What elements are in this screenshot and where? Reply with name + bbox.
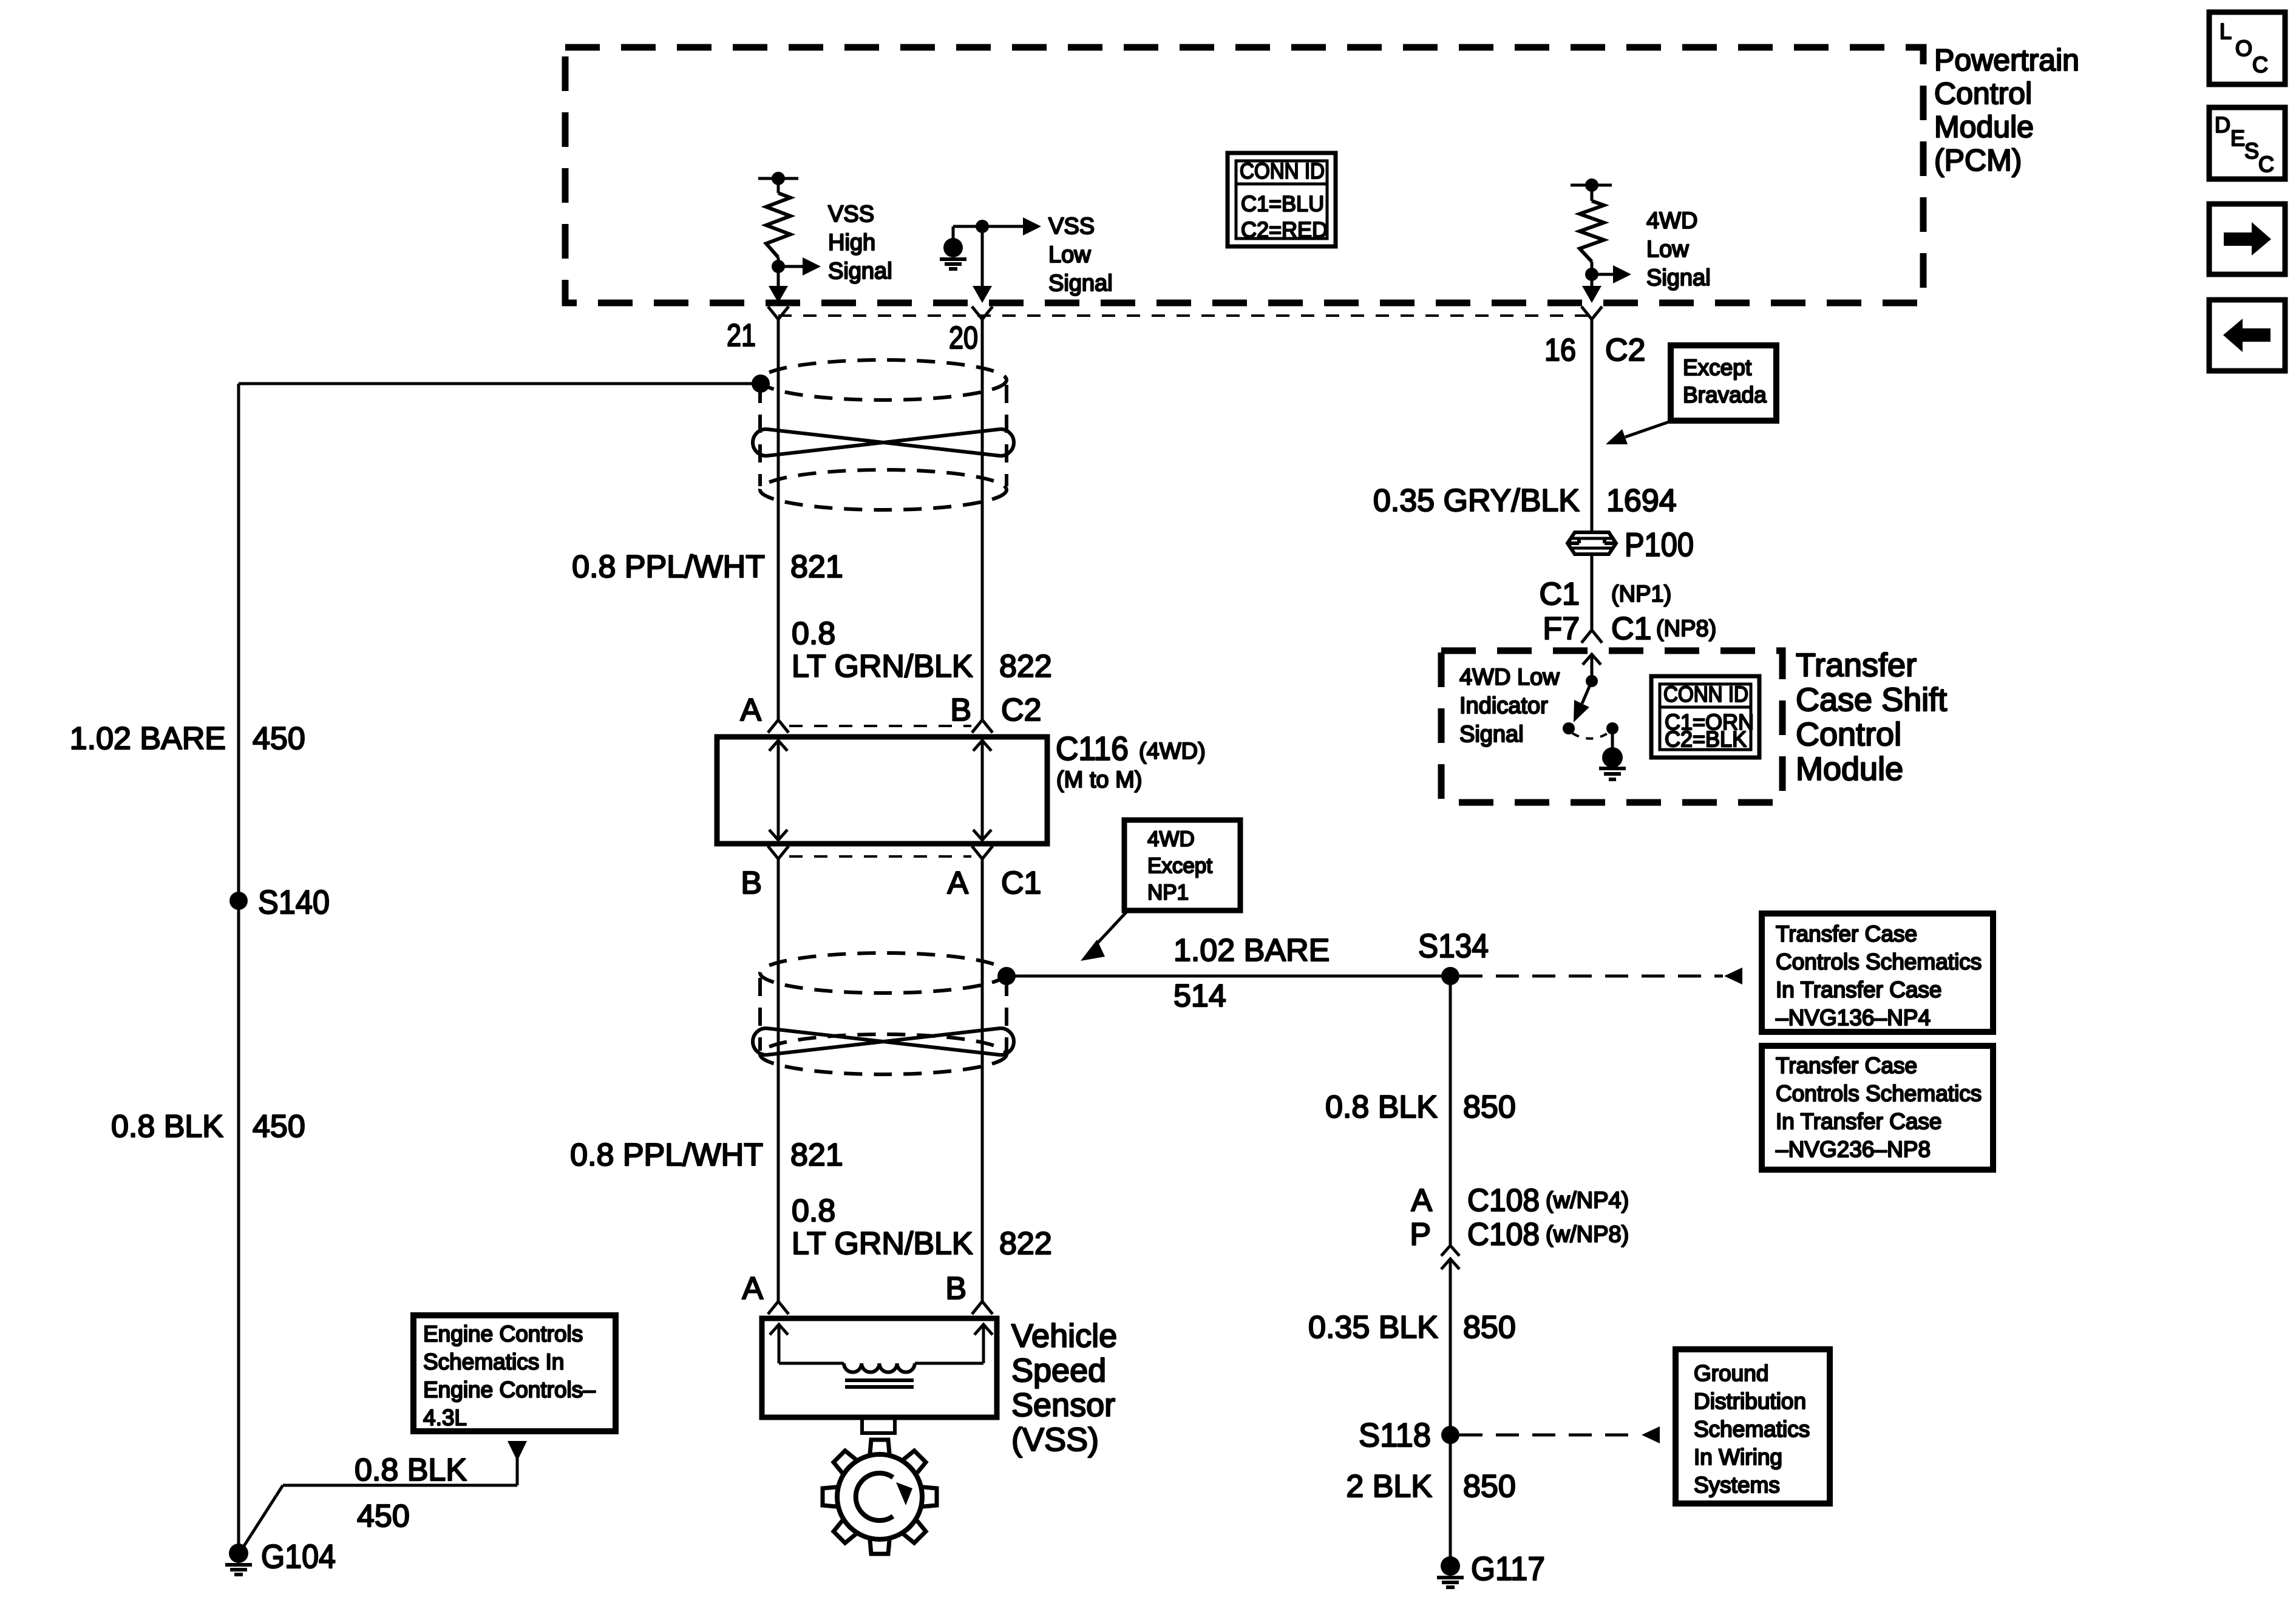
pin B upper at C116, connector C2 (950, 693, 1041, 733)
label 0.35 BLK 850 (1308, 1310, 1516, 1345)
VSS Low Signal arrow (982, 217, 1041, 236)
Transfer Case Shift Control Module dashed box (1441, 651, 1782, 802)
svg-text:4WD Low: 4WD Low (1459, 665, 1560, 690)
svg-text:450: 450 (253, 721, 305, 756)
svg-text:(PCM): (PCM) (1934, 143, 2022, 177)
svg-text:821: 821 (790, 549, 843, 585)
svg-text:850: 850 (1463, 1469, 1516, 1504)
connector terminal into transfer case module (1581, 630, 1602, 643)
svg-text:(VSS): (VSS) (1011, 1422, 1099, 1458)
svg-text:Indicator: Indicator (1459, 693, 1548, 719)
reluctor gear wheel (823, 1440, 937, 1554)
CONN ID table (transfer case module C1=ORN C2=BLK) (1651, 676, 1759, 758)
svg-text:Except: Except (1147, 854, 1212, 878)
callout box 4WD Except NP1 (1124, 820, 1240, 910)
svg-text:S134: S134 (1418, 927, 1489, 964)
svg-text:CONN ID: CONN ID (1240, 158, 1325, 183)
label 0.8 PPL/WHT 821 (upper) (572, 549, 843, 585)
wire 1694 (0.35 GRY/BLK) pin 16 to P100 (1591, 319, 1594, 532)
svg-text:Powertrain: Powertrain (1934, 43, 2079, 77)
pin B lower at C116 (741, 846, 789, 901)
svg-text:(NP1): (NP1) (1611, 581, 1671, 607)
pin 20 terminal (949, 307, 993, 356)
wire 850 upper segment (0.8 BLK) (1449, 976, 1452, 1246)
Vehicle Speed Sensor box (762, 1318, 997, 1417)
Except Bravada callout box (1671, 345, 1776, 421)
CONN ID table (PCM connectors C1=BLU C2=RED) (1228, 153, 1336, 246)
wire 514 (1.02 BARE) shield drain to S134 (1007, 975, 1450, 978)
pin 21 terminal (727, 307, 789, 353)
switch contact A (1563, 722, 1575, 734)
ground G104 (225, 1537, 336, 1575)
svg-text:C108: C108 (1467, 1217, 1540, 1252)
svg-text:(NP8): (NP8) (1656, 616, 1716, 642)
wire 850 middle segment (0.35 BLK) (1449, 1259, 1452, 1566)
C116 mating face upper dashed line (789, 725, 971, 727)
shielded twisted pair symbol (upper) (753, 360, 1014, 510)
svg-text:0.8 PPL/WHT: 0.8 PPL/WHT (572, 549, 765, 585)
svg-text:0.8 BLK: 0.8 BLK (1325, 1090, 1438, 1125)
connector C108 labels (1410, 1183, 1629, 1252)
svg-text:Control: Control (1934, 76, 2032, 110)
svg-text:LT GRN/BLK: LT GRN/BLK (792, 649, 973, 684)
C116 pass-through arrow left (769, 741, 787, 840)
svg-text:450: 450 (357, 1499, 410, 1534)
resistor R2 4WD Low pull-up inside PCM (1571, 178, 1612, 286)
wire 821 lower segment (777, 859, 780, 1301)
svg-text:4.3L: 4.3L (423, 1405, 467, 1430)
svg-text:Bravada: Bravada (1683, 382, 1767, 407)
svg-text:A: A (742, 1271, 763, 1306)
connector C1/F7 labels (1540, 577, 1717, 646)
svg-text:G117: G117 (1471, 1550, 1545, 1587)
drain wire 450 vertical run to G104 (237, 384, 240, 1553)
wire from R1 to pin 21 with arrowhead (769, 286, 788, 303)
svg-text:Transfer: Transfer (1796, 647, 1917, 683)
svg-text:850: 850 (1463, 1310, 1516, 1345)
svg-text:P100: P100 (1625, 526, 1694, 563)
svg-text:Engine Controls: Engine Controls (423, 1321, 583, 1346)
wire break chevrons at C108 (1441, 1246, 1459, 1269)
signal arrow into module (1583, 654, 1601, 680)
svg-text:Signal: Signal (1646, 265, 1711, 291)
4WD Low Signal label (1646, 208, 1711, 291)
svg-text:0.8 BLK: 0.8 BLK (355, 1453, 467, 1488)
shielded twisted pair symbol (lower) (753, 953, 1014, 1074)
svg-text:B: B (741, 866, 762, 901)
svg-text:(w/NP8): (w/NP8) (1546, 1222, 1629, 1247)
svg-text:High: High (828, 230, 875, 256)
svg-text:F7: F7 (1543, 611, 1580, 646)
label 0.8 PPL/WHT 821 (lower) (570, 1137, 843, 1173)
splice S118 (1359, 1416, 1459, 1454)
VSS mounting stub (862, 1417, 895, 1433)
LOC icon box (2209, 12, 2285, 84)
svg-text:Signal: Signal (1048, 271, 1113, 296)
label 0.8 BLK 450 (jumper) (355, 1453, 467, 1534)
svg-text:Low: Low (1048, 242, 1091, 268)
svg-text:0.35 GRY/BLK: 0.35 GRY/BLK (1373, 483, 1580, 518)
svg-text:0.8: 0.8 (792, 616, 835, 651)
svg-text:C2=BLK: C2=BLK (1665, 727, 1747, 751)
svg-text:Distribution: Distribution (1694, 1389, 1806, 1414)
svg-text:LT GRN/BLK: LT GRN/BLK (792, 1226, 973, 1261)
svg-text:Vehicle: Vehicle (1011, 1318, 1117, 1354)
module internal ground (1599, 747, 1626, 779)
wire 822 lower segment (981, 859, 984, 1301)
reference box Engine Controls Schematics (413, 1315, 616, 1431)
PCM module dashed outline box (565, 47, 1923, 303)
switch travel dashed arc (1572, 733, 1609, 739)
label 0.35 GRY/BLK 1694 (1373, 483, 1677, 518)
svg-text:Sensor: Sensor (1011, 1387, 1115, 1423)
svg-text:B: B (945, 1271, 966, 1306)
Vehicle Speed Sensor label (1011, 1318, 1117, 1458)
svg-text:D: D (2215, 112, 2230, 137)
forward arrow icon box (2209, 204, 2285, 274)
svg-text:S118: S118 (1359, 1416, 1431, 1454)
svg-text:1.02 BARE: 1.02 BARE (70, 721, 226, 756)
svg-text:4WD: 4WD (1646, 208, 1697, 234)
pin A at VSS (742, 1271, 789, 1314)
pin 16 terminal, connector C2 (1544, 307, 1645, 368)
svg-text:Except: Except (1683, 355, 1752, 380)
svg-text:0.8 PPL/WHT: 0.8 PPL/WHT (570, 1137, 763, 1173)
svg-text:G104: G104 (261, 1537, 336, 1575)
C116 pass-through arrow right (973, 741, 991, 840)
svg-text:(M to M): (M to M) (1056, 767, 1142, 793)
svg-text:Engine Controls–: Engine Controls– (423, 1377, 596, 1402)
svg-text:Schematics: Schematics (1694, 1417, 1810, 1442)
svg-text:21: 21 (727, 318, 756, 353)
node junction at VSS low (976, 220, 989, 233)
reference box Transfer Case Controls Schematics NVG236-NP8 (1762, 1046, 1993, 1170)
svg-text:E: E (2230, 126, 2245, 151)
svg-text:A: A (947, 866, 968, 901)
svg-text:C1: C1 (1611, 611, 1651, 646)
drain jumper wire 450 to G104 (242, 1485, 517, 1550)
reference box Transfer Case Controls Schematics NVG136-NP4 (1762, 914, 1993, 1032)
svg-text:Schematics In: Schematics In (423, 1349, 564, 1374)
label 1.02 BARE 450 (70, 721, 305, 756)
svg-text:C: C (2258, 152, 2274, 177)
ground G117 (1437, 1550, 1545, 1587)
svg-text:1694: 1694 (1606, 483, 1677, 518)
svg-text:Transfer Case: Transfer Case (1776, 921, 1917, 946)
svg-text:C2=RED: C2=RED (1241, 217, 1328, 242)
DESC icon box (2209, 107, 2285, 179)
svg-text:822: 822 (999, 1226, 1052, 1261)
svg-text:Systems: Systems (1694, 1473, 1780, 1497)
svg-text:In Wiring: In Wiring (1694, 1445, 1782, 1470)
wire from ground node to pin 20 with arrowhead (973, 226, 992, 303)
svg-text:C1=BLU: C1=BLU (1241, 191, 1324, 216)
svg-text:Ground: Ground (1694, 1361, 1768, 1386)
svg-text:514: 514 (1173, 978, 1226, 1014)
svg-text:C1: C1 (1001, 866, 1041, 901)
svg-text:C116: C116 (1056, 730, 1129, 767)
pass-through grommet P100 (1567, 532, 1616, 554)
svg-text:Module: Module (1796, 751, 1903, 787)
svg-text:C1: C1 (1540, 577, 1580, 612)
shield drain junction node (upper) (752, 375, 770, 393)
svg-text:–NVG236–NP8: –NVG236–NP8 (1776, 1137, 1931, 1162)
Transfer Case Shift Control Module label (1796, 647, 1947, 787)
svg-text:0.8 BLK: 0.8 BLK (111, 1109, 223, 1144)
svg-text:Control: Control (1796, 716, 1901, 753)
wire from R2 to pin 16 with arrowhead (1582, 286, 1601, 303)
VSS Low Signal label (1048, 214, 1113, 296)
C116 mating face lower dashed line (789, 855, 971, 858)
svg-text:C: C (2252, 52, 2268, 77)
gear rotation arrow (856, 1473, 912, 1520)
svg-text:Signal: Signal (1459, 722, 1524, 747)
4WD Low Signal arrow (1592, 265, 1631, 283)
svg-text:822: 822 (999, 649, 1052, 684)
label 0.8 BLK 450 (111, 1109, 305, 1144)
callout pointer from Engine Controls box (508, 1441, 527, 1485)
svg-text:S: S (2244, 138, 2259, 163)
resistor R1 VSS High pull-up inside PCM (758, 172, 798, 286)
PCM module name label (1934, 43, 2079, 177)
svg-text:P: P (1410, 1217, 1431, 1252)
switch contact B (1606, 722, 1618, 748)
pin B at VSS (945, 1271, 993, 1314)
dashed reference link from S118 (1459, 1426, 1660, 1443)
svg-text:L: L (2220, 19, 2232, 44)
label C116 (4WD) (M to M) (1056, 730, 1206, 793)
ground symbol (PCM internal, VSS low reference) (940, 226, 982, 269)
label 0.8 BLK 850 (1325, 1090, 1516, 1125)
svg-text:16: 16 (1544, 333, 1576, 368)
svg-text:–NVG136–NP4: –NVG136–NP4 (1776, 1005, 1931, 1030)
wire 822 upper segment (0.8 LT GRN/BLK) (981, 319, 984, 720)
svg-text:C108: C108 (1467, 1183, 1540, 1218)
VSS High Signal arrow (778, 257, 821, 276)
svg-text:850: 850 (1463, 1090, 1516, 1125)
dashed reference link from S134 (1459, 968, 1742, 985)
svg-text:Speed: Speed (1011, 1352, 1106, 1389)
svg-text:2 BLK: 2 BLK (1346, 1469, 1432, 1504)
VSS internal pickup coil (779, 1363, 983, 1387)
VSS internal lead arrows (770, 1324, 788, 1363)
svg-text:Module: Module (1934, 110, 2034, 144)
splice S140 (229, 883, 330, 921)
wire 1694 below P100 (1591, 554, 1594, 630)
svg-text:C2: C2 (1605, 333, 1645, 368)
pin A upper at C116 (740, 693, 789, 733)
svg-text:Case Shift: Case Shift (1796, 682, 1947, 718)
svg-text:A: A (1411, 1183, 1432, 1218)
label 1.02 BARE 514 (1173, 933, 1330, 1014)
svg-text:Controls Schematics: Controls Schematics (1776, 949, 1982, 974)
VSS High Signal label (828, 202, 892, 284)
svg-text:Controls Schematics: Controls Schematics (1776, 1081, 1982, 1106)
svg-text:C2: C2 (1001, 693, 1041, 728)
svg-text:Signal: Signal (828, 259, 892, 284)
svg-text:S140: S140 (258, 883, 330, 921)
svg-text:0.8: 0.8 (792, 1193, 835, 1229)
4WD Low Indicator Signal label (1459, 665, 1560, 747)
svg-text:(w/NP4): (w/NP4) (1546, 1188, 1629, 1213)
svg-text:4WD: 4WD (1147, 827, 1195, 851)
pin A lower at C116, connector C1 (947, 846, 1041, 901)
shield drain junction node (lower) (997, 967, 1016, 985)
svg-text:(4WD): (4WD) (1139, 739, 1206, 764)
callout arrow from Except Bravada box (1606, 421, 1671, 444)
svg-text:0.35 BLK: 0.35 BLK (1308, 1310, 1438, 1345)
connector C116 box (717, 737, 1047, 844)
back arrow icon box (2209, 300, 2285, 371)
svg-text:In Transfer Case: In Transfer Case (1776, 977, 1942, 1002)
reference box Ground Distribution Schematics (1676, 1349, 1830, 1503)
wire 821 upper segment (0.8 PPL/WHT) (777, 319, 780, 720)
label 0.8 LT GRN/BLK 822 (lower) (792, 1193, 1052, 1261)
svg-text:450: 450 (253, 1109, 305, 1144)
svg-text:1.02 BARE: 1.02 BARE (1173, 933, 1330, 968)
svg-text:NP1: NP1 (1147, 881, 1189, 904)
switch wiper (4WD low indicator switch) (1574, 675, 1598, 722)
svg-text:20: 20 (949, 320, 978, 356)
svg-text:Transfer Case: Transfer Case (1776, 1053, 1917, 1078)
svg-text:VSS: VSS (828, 202, 874, 227)
svg-text:Low: Low (1646, 237, 1689, 262)
svg-text:In Transfer Case: In Transfer Case (1776, 1109, 1942, 1134)
PCM connector face dashed line (778, 314, 1592, 317)
drain wire 450 horizontal run (239, 382, 761, 385)
svg-text:O: O (2235, 36, 2252, 61)
svg-text:B: B (950, 693, 971, 728)
svg-text:821: 821 (790, 1137, 843, 1173)
label 2 BLK 850 (1346, 1469, 1515, 1504)
svg-text:VSS: VSS (1048, 214, 1095, 239)
svg-text:CONN ID: CONN ID (1663, 682, 1748, 707)
callout arrow from 4WD Except NP1 box (1081, 912, 1127, 961)
label P100 (1625, 526, 1694, 563)
splice S134 (1418, 927, 1489, 985)
label 0.8 LT GRN/BLK 822 (upper) (792, 616, 1052, 684)
svg-text:A: A (740, 693, 761, 728)
